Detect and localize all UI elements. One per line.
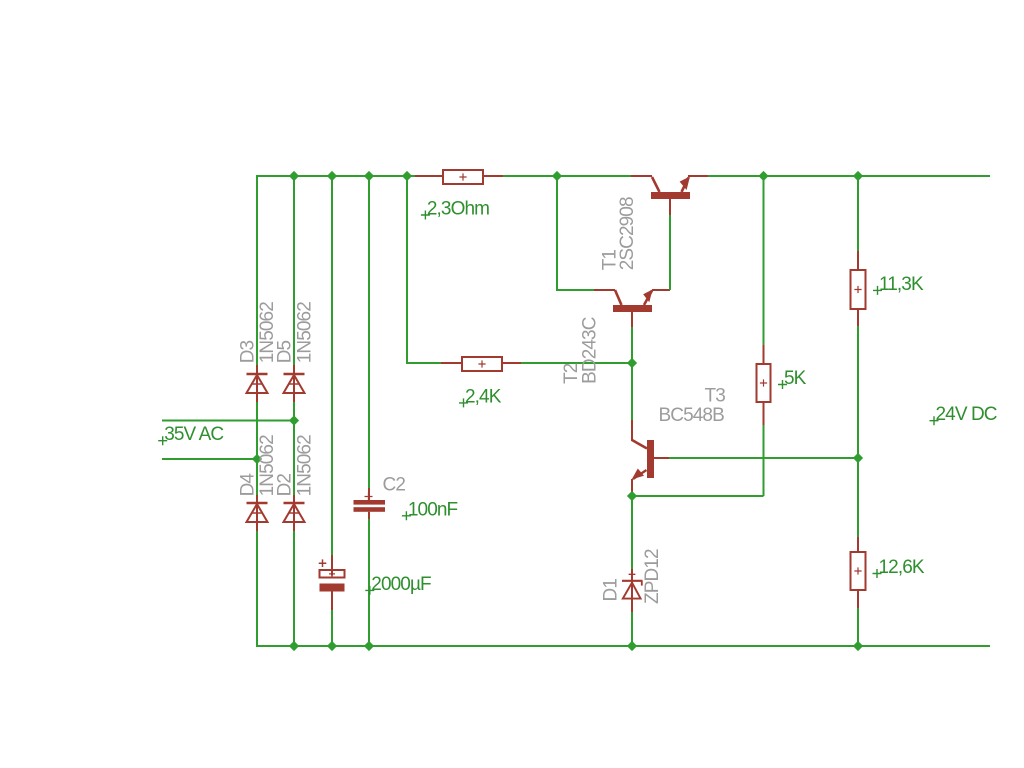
wire T3 emitter to zener xyxy=(631,496,633,569)
svg-text:35V AC: 35V AC xyxy=(164,424,223,445)
junction bottom rail / 2000µF xyxy=(327,641,337,651)
capacitor 2000µF (polarized) xyxy=(319,559,345,591)
junction bottom rail / D2 xyxy=(289,641,299,651)
wire D3 anode lead xyxy=(256,393,258,402)
junction top rail / D5 xyxy=(289,171,299,181)
wire zener anode lead xyxy=(631,599,633,612)
wire C-2000uF bottom xyxy=(331,610,333,646)
resistor 2,3Ohm body xyxy=(443,170,483,184)
svg-text:2000µF: 2000µF xyxy=(371,574,431,595)
wire T2 base to junction xyxy=(631,327,633,363)
wire 12,6K lower lead xyxy=(857,590,859,608)
label 24V DC xyxy=(930,404,997,425)
junction top rail / 2000µF xyxy=(327,171,337,181)
wire T2 emitter horizontal xyxy=(652,289,670,291)
wire top rail right segment xyxy=(708,175,990,177)
wire D5 anode lead xyxy=(293,393,295,402)
wire 2,4K branch horizontal xyxy=(406,362,441,364)
junction top rail / 2,4K branch xyxy=(402,171,412,181)
wire 12,6K upper lead xyxy=(857,537,859,552)
svg-text:2SC2908: 2SC2908 xyxy=(617,197,638,270)
wire T3 collector lead xyxy=(631,420,633,441)
wire C-2000uF top xyxy=(331,176,333,555)
wire T1 emitter lead xyxy=(688,175,708,177)
wire T1 collector lead xyxy=(631,175,652,177)
transistor T3 BC548B xyxy=(632,440,669,496)
wire resistor 2,4K left lead xyxy=(441,362,462,364)
resistor 12,6K body xyxy=(851,552,866,590)
wire top rail left segment xyxy=(257,175,415,177)
wire right rail middle xyxy=(857,326,859,537)
wire C-2000uF lower lead xyxy=(331,592,333,611)
svg-text:1N5062: 1N5062 xyxy=(295,435,316,496)
resistor 11,3K body xyxy=(851,270,866,309)
wire resistor 2,3Ohm right lead xyxy=(483,175,503,177)
svg-text:T3: T3 xyxy=(705,386,726,407)
wire resistor 2,4K right lead xyxy=(502,362,521,364)
label 12,6K xyxy=(873,557,925,578)
svg-text:BC548B: BC548B xyxy=(659,405,725,426)
svg-text:D3: D3 xyxy=(238,340,259,363)
label 2,4K xyxy=(459,386,502,407)
svg-text:5K: 5K xyxy=(784,368,807,389)
junction T3 base / divider xyxy=(853,453,863,463)
wire 2,4K to T2 base xyxy=(521,362,632,364)
label 11,3K xyxy=(873,274,924,295)
diode D4 xyxy=(247,502,268,522)
resistor 5K body xyxy=(757,364,771,402)
wire right rail bottom xyxy=(857,608,859,646)
wire 5K bottom xyxy=(763,425,765,496)
junction top rail / C2 xyxy=(364,171,374,181)
wire T3 base to divider xyxy=(669,457,858,459)
label 100nF xyxy=(402,499,458,520)
transistor T1 2SC2908 xyxy=(651,176,690,199)
wire resistor R 2,3Ohm left lead xyxy=(415,175,443,177)
wire 5K upper lead xyxy=(763,345,765,364)
wire C-2000uF upper lead xyxy=(331,555,333,576)
wire branch D5 top xyxy=(293,176,295,365)
svg-text:24V DC: 24V DC xyxy=(936,404,997,425)
label 5K xyxy=(778,368,807,389)
resistor 2,4K body xyxy=(462,357,502,371)
wire T2 collector vertical xyxy=(556,176,558,290)
wire C2 upper lead xyxy=(368,488,370,500)
junction AC lower / D3 line xyxy=(252,454,262,464)
svg-text:C2: C2 xyxy=(383,475,406,496)
junction bottom rail / C2 xyxy=(364,641,374,651)
svg-text:ZPD12: ZPD12 xyxy=(642,549,663,604)
capacitor C2 100nF xyxy=(354,493,386,512)
wire D4 cathode lead xyxy=(256,495,258,502)
wire zener bottom xyxy=(631,612,633,646)
junction top rail / divider xyxy=(853,171,863,181)
wire junction to T3 collector xyxy=(631,363,633,420)
wire 11,3K lower lead xyxy=(857,309,859,326)
junction AC upper / D5 line xyxy=(289,415,299,425)
svg-text:D4: D4 xyxy=(238,473,259,497)
label 2000µF xyxy=(365,574,431,595)
wire C2 lower lead xyxy=(368,512,370,520)
diode D2 xyxy=(284,502,305,522)
wire D2 anode lead xyxy=(293,522,295,531)
wire bottom rail xyxy=(257,645,990,647)
wire D5-D2 middle xyxy=(293,402,295,495)
wire 11,3K upper lead xyxy=(857,251,859,270)
wire C2 bottom xyxy=(368,519,370,646)
junction bottom rail / divider xyxy=(853,641,863,651)
wire D3-D4 middle xyxy=(256,402,258,495)
wire zener cathode lead xyxy=(631,569,633,580)
wire 5K top xyxy=(763,176,765,345)
junction top rail / 5K xyxy=(758,171,768,181)
junction T3 emitter / 5K xyxy=(627,491,637,501)
svg-text:11,3K: 11,3K xyxy=(879,274,924,295)
wire D4 bottom xyxy=(256,531,258,647)
wire right rail top xyxy=(857,176,859,251)
wire D4 anode lead xyxy=(256,522,258,531)
svg-text:D1: D1 xyxy=(601,579,622,602)
wire D5 cathode lead xyxy=(293,365,295,373)
wire T2 emitter to T1 base xyxy=(669,215,671,290)
svg-text:100nF: 100nF xyxy=(408,499,458,520)
wire D3 cathode lead xyxy=(256,365,258,373)
wire D2 cathode lead xyxy=(293,495,295,502)
label 35V AC xyxy=(158,424,223,445)
wire top rail middle segment xyxy=(503,175,631,177)
wire 5K lower lead xyxy=(763,402,765,425)
wire 2,4K branch vertical xyxy=(406,176,408,363)
junction 2,4K / T2 base xyxy=(627,358,637,368)
junction top rail / T2 collector xyxy=(552,171,562,181)
svg-text:D5: D5 xyxy=(275,340,296,363)
diode D3 xyxy=(247,373,268,393)
svg-text:1N5062: 1N5062 xyxy=(295,302,316,363)
wire AC input lower xyxy=(162,458,257,460)
label 2,3Ohm xyxy=(421,199,489,220)
zener diode D1 ZPD12 xyxy=(622,571,643,599)
wire AC input upper xyxy=(162,420,294,422)
wire C2 top xyxy=(368,176,370,488)
svg-text:2,3Ohm: 2,3Ohm xyxy=(427,199,489,220)
diode D5 xyxy=(284,373,305,393)
svg-text:2,4K: 2,4K xyxy=(465,386,502,407)
wire T2 collector horizontal xyxy=(556,289,594,291)
wire T2 collector lead xyxy=(594,289,615,291)
junction bottom rail / zener xyxy=(627,641,637,651)
transistor T2 BD243C xyxy=(613,290,653,328)
svg-text:BD243C: BD243C xyxy=(580,317,601,384)
wire left branch D3 top xyxy=(256,175,258,365)
wire T1 base lead xyxy=(669,199,671,215)
svg-text:12,6K: 12,6K xyxy=(879,557,925,578)
wire D2 bottom xyxy=(293,531,295,646)
svg-text:D2: D2 xyxy=(275,474,296,497)
wire 5K to T3 emitter junction xyxy=(632,495,764,497)
